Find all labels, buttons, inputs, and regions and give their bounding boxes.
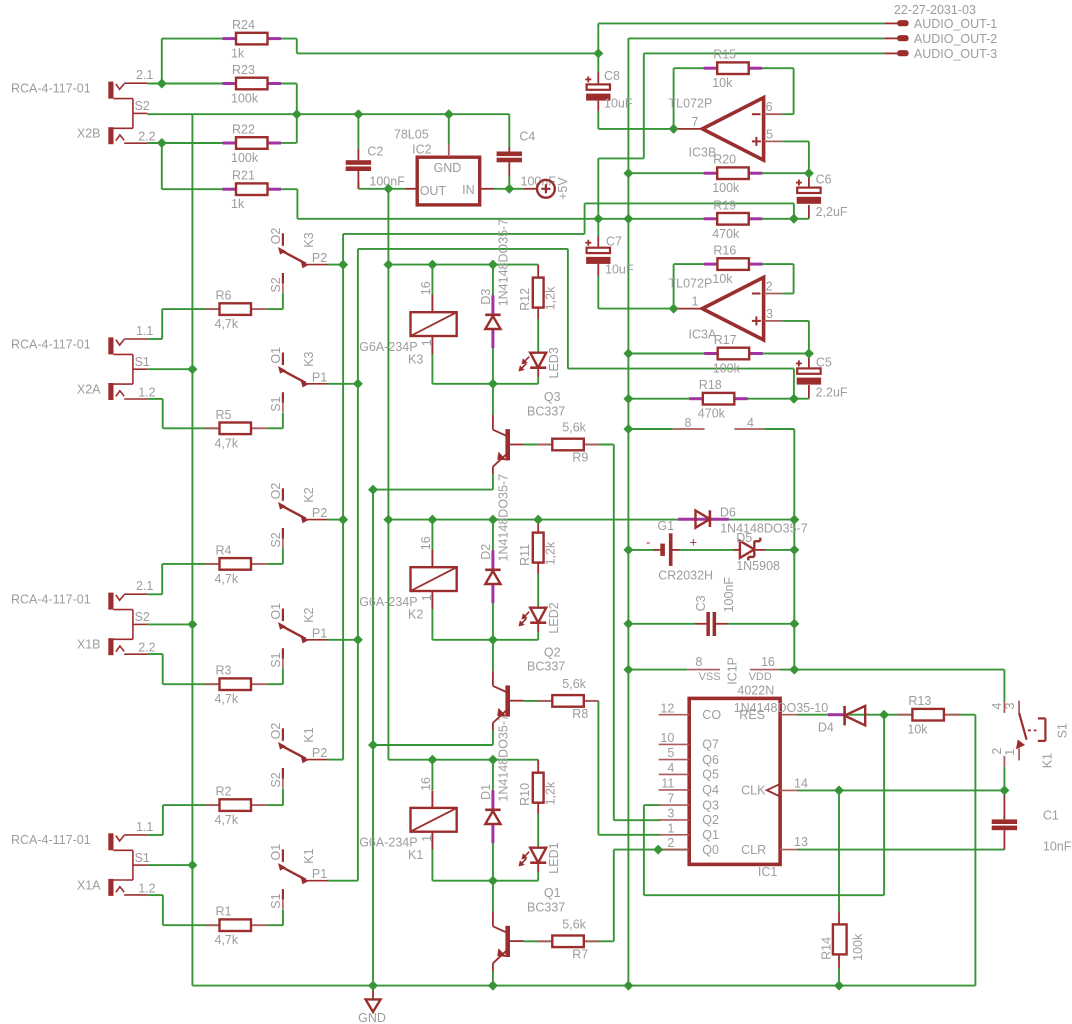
wire R18 row (628, 398, 702, 400)
svg-text:O1: O1 (269, 347, 283, 364)
wire contact P2/P1 poles to buses (328, 264, 344, 266)
svg-text:CLK: CLK (741, 784, 766, 798)
svg-text:GND: GND (358, 1011, 386, 1024)
junction (794,550) (789, 545, 799, 555)
junction (432,760) (427, 755, 437, 765)
svg-text:16: 16 (419, 281, 433, 295)
resistor R20 (704, 172, 717, 175)
resistor R12 (533, 278, 544, 308)
svg-text:D3: D3 (479, 289, 493, 305)
resistor R18 (689, 397, 702, 400)
svg-text:1N4148DO35-10: 1N4148DO35-10 (734, 701, 829, 715)
svg-text:IC1P: IC1P (725, 657, 739, 685)
junction (628,624) (623, 619, 633, 629)
resistor R23 (223, 82, 236, 85)
svg-text:R5: R5 (216, 408, 232, 422)
resistor R7 (538, 940, 553, 942)
junction (809,354) (804, 349, 814, 359)
svg-text:1: 1 (420, 594, 434, 601)
svg-text:5: 5 (667, 746, 674, 760)
svg-text:S2: S2 (269, 532, 283, 547)
svg-text:16: 16 (761, 655, 775, 669)
svg-text:S2: S2 (269, 277, 283, 292)
svg-text:4,7k: 4,7k (215, 933, 239, 947)
wire CLK row (797, 789, 1004, 791)
svg-text:K1: K1 (302, 727, 316, 742)
svg-text:TL072P: TL072P (669, 276, 713, 290)
wire R23/R22 right to GND row (268, 83, 297, 85)
wire CLR row to C1 (797, 849, 1004, 851)
svg-text:10: 10 (660, 731, 674, 745)
svg-text:1N4148DO35-7: 1N4148DO35-7 (497, 219, 511, 307)
junction (598,53) (593, 48, 603, 58)
wire jack sleeve pins to GND rail (147, 368, 192, 370)
wire D1 column (492, 760, 494, 791)
svg-text:C5: C5 (816, 355, 832, 369)
capacitor C1 (992, 819, 1017, 824)
AUDIO_OUT-1 pad (884, 22, 898, 24)
svg-text:R17: R17 (714, 333, 737, 347)
svg-text:P1: P1 (312, 626, 327, 640)
wire bottom GND rail (192, 985, 975, 987)
svg-text:R22: R22 (232, 123, 255, 137)
svg-text:1k: 1k (231, 197, 245, 211)
svg-text:R14: R14 (819, 937, 833, 960)
svg-text:R18: R18 (699, 378, 722, 392)
relay contact K3 P1 (282, 353, 284, 366)
svg-text:10nF: 10nF (1043, 839, 1072, 853)
wire IC2 GND pin (448, 114, 450, 143)
wire K3 +5V row (388, 264, 538, 266)
svg-text:RCA-4-117-01: RCA-4-117-01 (11, 82, 91, 96)
wire Q2 collector (492, 640, 494, 672)
wire left GND rail vertical (191, 114, 193, 985)
TL072 power pins 8/4 (673, 428, 705, 430)
svg-text:VDD: VDD (749, 671, 772, 683)
junction (162,84) (157, 79, 167, 89)
svg-text:7: 7 (692, 115, 699, 129)
svg-text:R21: R21 (232, 169, 255, 183)
svg-text:BC337: BC337 (527, 404, 565, 418)
wire R12/LED3 column (537, 265, 539, 278)
svg-text:P1: P1 (312, 867, 327, 881)
svg-text:TL072P: TL072P (669, 97, 713, 111)
capacitor C7 (587, 248, 610, 253)
svg-text:1N5908: 1N5908 (736, 559, 780, 573)
svg-text:1,2k: 1,2k (544, 541, 558, 565)
svg-text:4,7k: 4,7k (215, 317, 239, 331)
relay contact K1 P1 (282, 849, 284, 862)
svg-text:2.2uF: 2.2uF (816, 385, 848, 399)
wire R7 right to IC1 Q0 pin (584, 940, 614, 942)
wire R20 row (628, 172, 717, 174)
svg-text:-: - (646, 535, 650, 550)
svg-text:22-27-2031-03: 22-27-2031-03 (894, 3, 976, 17)
junction (432,520) (427, 515, 437, 525)
svg-text:5,6k: 5,6k (562, 421, 586, 435)
svg-text:R11: R11 (518, 544, 532, 566)
svg-text:C2: C2 (367, 144, 383, 158)
junction (373,745) (368, 740, 378, 750)
jack X1A (108, 833, 113, 850)
wire C8 leads / IC3B out node (597, 53, 599, 72)
svg-text:1: 1 (692, 295, 699, 309)
svg-text:S2: S2 (135, 610, 150, 624)
svg-text:5,6k: 5,6k (562, 917, 586, 931)
svg-text:10uF: 10uF (604, 96, 633, 110)
junction (162,143) (157, 138, 167, 148)
wire K3 coil pin16 (431, 265, 433, 295)
svg-text:S1: S1 (1055, 723, 1069, 738)
diode D3 (491, 295, 494, 315)
svg-text:P2: P2 (312, 251, 327, 265)
wire D4 node to R13 (884, 714, 912, 716)
wire R14 bottom lead (838, 968, 840, 986)
resistor R13 (898, 714, 913, 716)
svg-text:C6: C6 (816, 172, 832, 186)
svg-text:K1: K1 (408, 848, 423, 862)
svg-text:10uF: 10uF (605, 262, 634, 276)
wire Q1 base to R7 (524, 940, 553, 942)
svg-text:S1: S1 (269, 652, 283, 667)
svg-text:4022N: 4022N (737, 684, 774, 698)
wire C3 row (628, 623, 695, 625)
svg-text:3: 3 (667, 807, 674, 821)
wire K2 coil pin16 (431, 520, 433, 550)
svg-text:K3: K3 (302, 351, 316, 366)
svg-text:Q2: Q2 (702, 813, 719, 827)
wire Q1 collector (492, 881, 494, 913)
svg-text:4,7k: 4,7k (215, 692, 239, 706)
svg-text:16: 16 (419, 536, 433, 550)
svg-text:CO: CO (702, 708, 721, 722)
battery G1 CR2032H (660, 544, 665, 556)
wire Q3 collector (492, 384, 494, 416)
wire R24 to AUDIO_OUT junction (268, 38, 297, 40)
resistor R5 (205, 427, 220, 429)
junction (343,520) (338, 515, 348, 525)
junction (493,265) (488, 260, 498, 270)
svg-text:D5: D5 (736, 531, 752, 545)
IC1 CLK input triangle (767, 784, 780, 797)
svg-text:11: 11 (661, 777, 674, 791)
svg-text:5,6k: 5,6k (562, 677, 586, 691)
svg-text:1: 1 (1003, 749, 1017, 756)
junction (373,490) (368, 485, 378, 495)
svg-text:OUT: OUT (420, 184, 447, 198)
junction (509,189) (504, 184, 514, 194)
svg-text:C8: C8 (604, 69, 620, 83)
jack X1B (108, 593, 113, 610)
junction (358,640) (353, 635, 363, 645)
svg-text:3: 3 (1003, 703, 1017, 710)
wire X2B pin2.1 to R23/R24 node (147, 83, 236, 85)
svg-text:8: 8 (695, 655, 702, 669)
svg-text:RCA-4-117-01: RCA-4-117-01 (11, 833, 91, 847)
junction (538,520) (533, 515, 543, 525)
svg-text:100k: 100k (231, 92, 259, 106)
svg-text:1,2k: 1,2k (544, 286, 558, 310)
svg-text:Q1: Q1 (544, 886, 561, 900)
wire AUDIO_OUT-3 (644, 52, 885, 54)
svg-text:8: 8 (685, 416, 692, 430)
junction (373,986) (368, 981, 378, 991)
svg-text:1,2k: 1,2k (544, 781, 558, 805)
resistor R1 (205, 924, 220, 926)
svg-text:C3: C3 (694, 595, 708, 611)
svg-text:P1: P1 (312, 370, 327, 384)
junction (493,384) (488, 379, 498, 389)
svg-text:Q0: Q0 (702, 843, 719, 857)
svg-text:R6: R6 (216, 289, 232, 303)
svg-text:1: 1 (420, 835, 434, 842)
svg-text:VSS: VSS (699, 671, 721, 683)
diode D2 (491, 550, 494, 570)
wire Q2 base to R8 (524, 700, 553, 702)
resistor R2 (205, 804, 220, 806)
junction (598,219) (593, 214, 603, 224)
wire R9 right to IC1 Q2 pin (584, 444, 614, 446)
svg-text:X2A: X2A (77, 382, 101, 396)
junction (358,114) (353, 109, 363, 119)
junction (628,986) (623, 981, 633, 991)
svg-text:14: 14 (794, 776, 808, 790)
svg-text:S2: S2 (269, 772, 283, 787)
wire X2B S2 to GND rail (147, 113, 192, 115)
AUDIO_OUT-3 pad (884, 52, 898, 54)
wire R15 feedback (673, 68, 675, 129)
svg-text:LED2: LED2 (547, 602, 561, 633)
svg-text:X1B: X1B (77, 638, 101, 652)
junction (493,986) (488, 981, 498, 991)
wire K2 coil pin1 to row (431, 608, 433, 640)
svg-text:P2: P2 (312, 506, 327, 520)
IC1 power pins VSS/VDD (687, 669, 720, 671)
junction (674,309) (669, 304, 679, 314)
capacitor C8 (587, 84, 610, 89)
wire Q1 emitter to GND rail (492, 971, 494, 986)
svg-text:2.2: 2.2 (138, 130, 155, 144)
junction (493,640) (488, 635, 498, 645)
svg-text:Q3: Q3 (702, 798, 719, 812)
wire AUDIO_OUT-2 / GND audio bus (628, 37, 884, 39)
diode D5 1N5908 (734, 549, 740, 551)
svg-text:1N4148DO35-7: 1N4148DO35-7 (497, 474, 511, 562)
svg-text:R13: R13 (908, 694, 931, 708)
capacitor C2 (346, 160, 371, 165)
resistor R4 (205, 563, 220, 565)
junction (628,399) (623, 394, 633, 404)
svg-text:13: 13 (794, 835, 808, 849)
resistor R15 (704, 67, 717, 70)
svg-text:O1: O1 (269, 603, 283, 620)
svg-text:D1: D1 (479, 784, 493, 800)
svg-text:P2: P2 (312, 746, 327, 760)
relay K3 coil (431, 295, 433, 312)
junction (388,520) (383, 515, 393, 525)
svg-text:LED3: LED3 (547, 347, 561, 378)
svg-text:2: 2 (766, 280, 773, 294)
wire IC3A output pin (674, 308, 703, 310)
resistor R24 (223, 37, 236, 40)
capacitor C3 (706, 612, 710, 636)
resistor R10 (533, 773, 544, 803)
svg-text:1: 1 (667, 821, 674, 835)
LED LED2 (530, 608, 546, 623)
switch S1 (1003, 702, 1005, 713)
svg-text:Q7: Q7 (702, 738, 719, 752)
IC1 4022N counter box (689, 698, 780, 864)
junction (794,219) (789, 214, 799, 224)
junction (1004,790) (999, 785, 1009, 795)
wire R13 right to GND rail (945, 714, 976, 716)
wire D4 node down to Q3 loop (883, 715, 885, 896)
junction (192,865) (187, 860, 197, 870)
svg-text:R16: R16 (713, 244, 736, 258)
wire audio bus L (357, 249, 359, 881)
svg-text:16: 16 (419, 777, 433, 791)
junction (192,624) (187, 619, 197, 629)
svg-text:1: 1 (420, 339, 434, 346)
svg-text:C4: C4 (519, 129, 535, 143)
wire K2 S1 to R3 / X1B 2.2 (282, 669, 284, 685)
junction (658,850) (653, 845, 663, 855)
svg-text:10k: 10k (712, 272, 733, 286)
resistor R14 (833, 924, 847, 954)
svg-text:R24: R24 (232, 18, 255, 32)
junction (809,173) (804, 168, 814, 178)
junction (839,790) (834, 785, 844, 795)
wire IC3B pin5 to C6 top (782, 140, 809, 142)
svg-text:RCA-4-117-01: RCA-4-117-01 (11, 337, 91, 351)
wire R19 right (749, 218, 794, 220)
transistor Q3 (505, 429, 510, 460)
wire R17 row (628, 353, 717, 355)
resistor R11 (533, 533, 544, 563)
junction (628,354) (623, 349, 633, 359)
jack X2B (108, 82, 113, 99)
wire K1 coil pin16 (431, 760, 433, 790)
svg-text:R9: R9 (572, 451, 588, 465)
svg-text:100k: 100k (712, 181, 740, 195)
svg-text:10k: 10k (907, 723, 928, 737)
svg-text:CLR: CLR (741, 843, 766, 857)
wire G1 battery row (628, 549, 653, 551)
wire audio bus R (342, 234, 344, 760)
svg-text:CR2032H: CR2032H (658, 568, 713, 582)
wire K3 S2 to R6 / X2A 1.1 (282, 293, 284, 309)
svg-text:O2: O2 (269, 723, 283, 740)
wire IC1 Q0 pin overlap (658, 849, 689, 851)
svg-text:470k: 470k (698, 407, 726, 421)
AUDIO_OUT-2 pad (884, 37, 898, 39)
wire VDD to S1 pin4 (794, 669, 1004, 671)
wire K1 coil pin1 to row (431, 849, 433, 881)
LED LED3 (530, 353, 546, 368)
wire C2 leads (357, 114, 359, 149)
resistor R9 (538, 444, 553, 446)
svg-text:2.1: 2.1 (136, 579, 153, 593)
wire X2B pin2.2 to R22/R21 (147, 142, 236, 144)
wire K3 S1 to R5 / X2A 1.2 (282, 413, 284, 428)
svg-text:LED1: LED1 (547, 842, 561, 873)
wire K2/D6 row (388, 519, 794, 521)
svg-text:K2: K2 (408, 608, 423, 622)
junction (628,550) (623, 545, 633, 555)
svg-text:IC3A: IC3A (689, 328, 717, 342)
junction (794,520) (789, 515, 799, 525)
diode D6 (678, 518, 729, 521)
resistor R6 (205, 308, 220, 310)
svg-text:100k: 100k (851, 933, 865, 961)
svg-text:1N4148DO35-7: 1N4148DO35-7 (497, 714, 511, 802)
svg-text:AUDIO_OUT-3: AUDIO_OUT-3 (914, 47, 997, 61)
wire GND bus (emitters) (372, 490, 374, 986)
svg-text:R3: R3 (216, 664, 232, 678)
svg-text:K2: K2 (302, 607, 316, 622)
svg-text:O1: O1 (269, 844, 283, 861)
relay contact K3 P2 (282, 233, 284, 246)
wire R21 right to R19 row (268, 188, 298, 190)
svg-text:4,7k: 4,7k (215, 813, 239, 827)
wire C5 bottom (808, 385, 810, 399)
svg-text:470k: 470k (712, 227, 740, 241)
svg-text:100nF: 100nF (722, 577, 736, 613)
wire R10/LED1 column (537, 760, 539, 773)
svg-text:K3: K3 (408, 352, 423, 366)
junction (794,399) (789, 394, 799, 404)
wire R14 top lead (838, 790, 840, 911)
svg-text:IC3B: IC3B (689, 145, 717, 159)
svg-text:D2: D2 (479, 544, 493, 560)
svg-text:Q5: Q5 (702, 768, 719, 782)
svg-text:IC2: IC2 (412, 143, 432, 157)
svg-text:S1: S1 (269, 396, 283, 411)
svg-text:2: 2 (667, 836, 674, 850)
junction (628,173) (623, 168, 633, 178)
svg-text:6: 6 (766, 100, 773, 114)
svg-text:Q1: Q1 (702, 828, 719, 842)
svg-text:2,2uF: 2,2uF (816, 205, 848, 219)
junction (388,189) (383, 184, 393, 194)
resistor R16 (704, 263, 717, 266)
svg-text:D4: D4 (818, 720, 834, 734)
wire C7 leads / IC3A out node (597, 219, 599, 236)
wire Q2 emitter to GND bus (492, 730, 494, 745)
svg-text:C7: C7 (606, 234, 622, 248)
svg-text:K2: K2 (302, 487, 316, 502)
svg-text:Q4: Q4 (702, 783, 719, 797)
svg-text:4,7k: 4,7k (215, 436, 239, 450)
wire VSS/VDD row (628, 669, 687, 671)
svg-text:7: 7 (667, 792, 674, 806)
svg-text:R1: R1 (216, 905, 232, 919)
transistor Q1 (505, 926, 510, 957)
svg-text:IN: IN (462, 183, 475, 197)
svg-text:R12: R12 (518, 288, 532, 311)
svg-text:10k: 10k (712, 76, 733, 90)
wire R16 feedback (673, 264, 675, 309)
svg-text:G1: G1 (657, 519, 674, 533)
wire K3 coil pin1 to row (431, 353, 433, 384)
svg-text:Q3: Q3 (544, 390, 561, 404)
op-amp IC3A (702, 277, 763, 340)
capacitor C6 (797, 188, 820, 193)
junction (358,384) (353, 379, 363, 389)
svg-text:R8: R8 (572, 707, 588, 721)
svg-text:S2: S2 (135, 99, 150, 113)
resistor R3 (205, 683, 220, 685)
